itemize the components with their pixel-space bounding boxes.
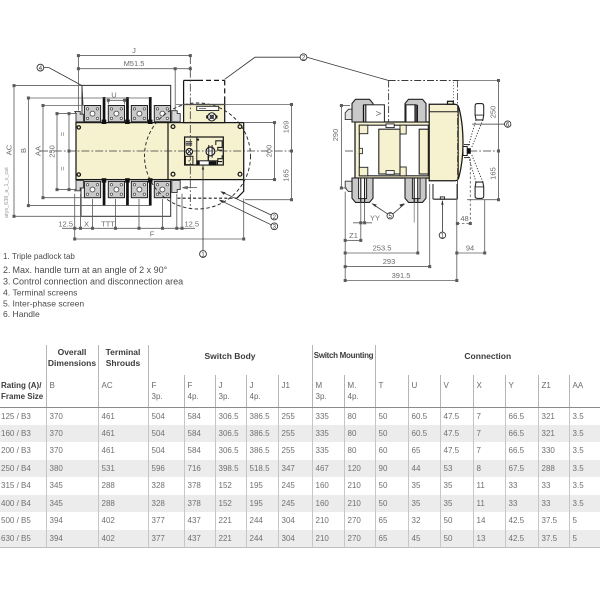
svg-text:169: 169	[282, 121, 291, 134]
bottom terminal shroud outline	[81, 180, 171, 217]
svg-text:48: 48	[460, 214, 468, 223]
shroud slot bottom 1	[359, 178, 367, 199]
svg-text:2.: 2.	[3, 265, 11, 275]
svg-text:12.5: 12.5	[185, 219, 200, 228]
svg-text:Terminal screens: Terminal screens	[13, 288, 78, 298]
padlock tab block	[186, 141, 192, 145]
side inner panel	[359, 125, 428, 176]
svg-text:atys_638_a_1_x_cat: atys_638_a_1_x_cat	[4, 167, 10, 218]
handle shaft circle	[206, 147, 215, 156]
handle shaft coupling	[463, 147, 467, 156]
side switch housing	[429, 104, 463, 181]
panel corner bracket BR	[400, 167, 406, 176]
left mounting tab bottom	[75, 180, 84, 190]
centerline horizontal front	[40, 150, 292, 152]
handle swing envelope	[389, 81, 459, 129]
svg-text:M51.5: M51.5	[124, 59, 145, 68]
svg-text:F: F	[150, 230, 155, 239]
svg-text:391.5: 391.5	[392, 271, 411, 280]
dimension equal marks	[68, 113, 70, 191]
FRONT VIEW	[76, 85, 244, 216]
dimension 200	[244, 122, 276, 181]
leader note 2 top	[225, 54, 389, 81]
label plate	[197, 106, 219, 110]
svg-text:3.: 3.	[3, 277, 11, 287]
svg-text:AA: AA	[33, 146, 42, 156]
centerline vertical front	[189, 56, 191, 209]
svg-text:94: 94	[466, 243, 474, 252]
side left mounting tab top	[345, 109, 355, 119]
tab width arrow	[183, 186, 198, 188]
svg-text:Control connection and disconn: Control connection and disconnection are…	[13, 277, 184, 287]
handle rotation dashed circle	[145, 103, 251, 209]
terminal block top 4	[154, 106, 170, 122]
shroud slot bottom 2	[412, 178, 420, 199]
dimension AC	[13, 85, 82, 218]
svg-text:Handle: Handle	[13, 309, 40, 319]
switch body	[76, 123, 244, 180]
handle plate divider	[167, 123, 169, 180]
shroud tower bottom 2	[405, 178, 426, 202]
svg-text:12.5: 12.5	[58, 219, 73, 228]
dimension 250	[56, 113, 77, 191]
panel center tab top	[386, 124, 394, 128]
control head	[184, 105, 225, 123]
bottom dimension chain 12.5 X TTT 12.5	[62, 194, 195, 239]
dimension B	[27, 97, 150, 207]
padlock tab side	[433, 198, 457, 200]
svg-text:165: 165	[489, 167, 498, 180]
side body terminal section	[355, 122, 430, 178]
svg-text:Max. handle turn at an angle o: Max. handle turn at an angle of 2 x 90°	[13, 265, 168, 275]
left mounting tab top	[75, 111, 84, 121]
svg-text:5.: 5.	[3, 299, 10, 309]
panel corner bracket BL	[359, 167, 368, 176]
small box below shaft	[185, 156, 193, 164]
svg-text:293: 293	[383, 257, 396, 266]
terminal block bottom 4	[154, 181, 170, 197]
dimension AA	[42, 104, 85, 198]
svg-text:6.: 6.	[3, 309, 10, 319]
SIDE VIEW	[331, 79, 511, 281]
svg-text:AC: AC	[5, 144, 14, 155]
svg-text:=: =	[58, 166, 67, 171]
panel center tab bottom	[386, 171, 394, 175]
panel mid bracket	[359, 148, 362, 153]
svg-text:Inter-phase screen: Inter-phase screen	[13, 299, 85, 309]
svg-text:1.: 1.	[3, 252, 10, 261]
svg-text:165: 165	[282, 169, 291, 182]
shaft circle small	[186, 148, 192, 154]
terminal bolt top 2	[414, 105, 416, 122]
panel corner bracket TR	[400, 125, 406, 134]
pole barrier column 1	[379, 129, 400, 174]
svg-text:253.5: 253.5	[373, 243, 392, 252]
terminal bolt top 1	[362, 105, 364, 122]
terminal block bottom 2	[108, 181, 124, 197]
phase busbars bottom	[103, 181, 106, 205]
phase busbars top	[103, 97, 106, 121]
terminal block top 2	[108, 106, 124, 122]
shroud tower bottom 1	[352, 178, 373, 202]
leader note 1 front	[200, 165, 207, 259]
leader note 1 side	[439, 200, 445, 240]
shroud tower top 2	[405, 99, 426, 122]
panel corner bracket TL	[359, 125, 368, 134]
svg-text:X: X	[84, 219, 89, 228]
svg-text:Z1: Z1	[349, 231, 358, 240]
handle arm down dashed	[468, 155, 483, 199]
dimension Z1	[344, 192, 362, 281]
control mechanism square	[185, 137, 224, 165]
mechanism bracket hooks	[216, 141, 222, 150]
svg-text:YY: YY	[370, 213, 380, 222]
right mounting tab top	[172, 111, 180, 122]
phase busbar feet top	[102, 120, 107, 124]
top terminal shroud outline	[82, 85, 171, 122]
dimension 250 / 165 side	[459, 79, 500, 200]
leader note 3 right	[219, 200, 278, 231]
svg-text:200: 200	[265, 145, 274, 158]
dimension 253.5	[344, 202, 419, 254]
dimension J	[77, 55, 191, 111]
svg-text:Triple padlock tab: Triple padlock tab	[12, 252, 75, 261]
leader note 6	[472, 121, 511, 129]
terminal block top 3	[131, 106, 147, 122]
dimension 290	[340, 104, 350, 189]
motor control box	[184, 80, 225, 104]
dimension U	[107, 99, 126, 104]
terminal block bottom 1	[84, 181, 100, 197]
svg-text:4.: 4.	[3, 288, 10, 298]
pole barrier column 2	[419, 129, 428, 174]
shroud slot top 1	[364, 105, 385, 122]
dimension 293	[344, 184, 431, 268]
svg-text:250: 250	[489, 106, 498, 119]
dimension F	[74, 199, 245, 241]
mechanism vertical divider	[196, 137, 198, 161]
dimension 169 / 165	[176, 103, 293, 200]
svg-text:250: 250	[47, 145, 56, 158]
body corner screws	[77, 126, 80, 129]
link to strip	[207, 156, 209, 162]
side left mounting tab bottom	[345, 181, 355, 191]
plate corner holes	[171, 125, 175, 129]
leader note 5	[371, 203, 404, 220]
housing top notch	[448, 101, 454, 104]
terminal bolt bottom 1	[360, 178, 362, 202]
shroud tower top 1	[352, 99, 373, 122]
phase busbar feet bottom	[102, 178, 107, 182]
head screw	[208, 113, 216, 121]
disconnection area edge	[237, 180, 244, 199]
side centerline	[345, 150, 499, 152]
leader note 4	[37, 64, 83, 105]
dimension YY	[353, 202, 372, 240]
shroud slot top 2	[406, 105, 416, 122]
right mounting tab bottom	[172, 180, 180, 192]
leader note 2 right	[220, 191, 277, 221]
auxiliary terminal strip	[197, 161, 218, 165]
svg-text:=: =	[58, 131, 67, 136]
svg-text:J: J	[132, 46, 136, 55]
handle arm up dashed	[468, 104, 483, 148]
dimension 48	[456, 159, 471, 225]
dimension 94	[456, 200, 486, 254]
svg-text:TTT: TTT	[101, 219, 115, 228]
dimension M51.5	[77, 68, 191, 111]
svg-text:B: B	[19, 148, 28, 153]
svg-text:290: 290	[331, 129, 340, 142]
terminal bolt bottom 2	[413, 178, 415, 202]
dimension 391.5	[344, 184, 458, 282]
terminal block top 1	[84, 106, 100, 122]
terminal block bottom 3	[131, 181, 147, 197]
svg-text:V: V	[374, 111, 383, 116]
